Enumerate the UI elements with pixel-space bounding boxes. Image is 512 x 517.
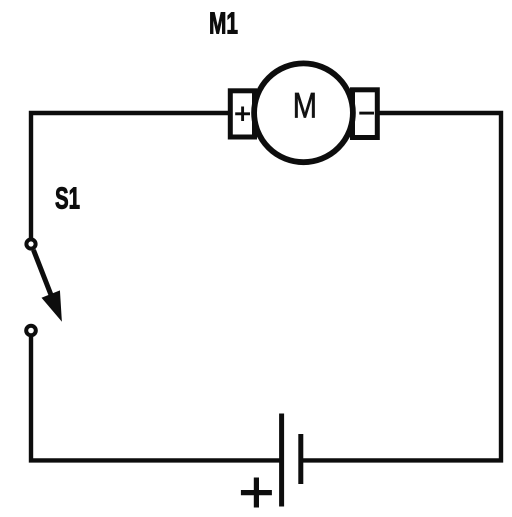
- battery negative plate (short): [298, 434, 303, 484]
- switch S1 bottom terminal: [26, 326, 36, 336]
- wire top-left run: from motor left terminal to top-left corner down to switch: [31, 113, 229, 239]
- svg-text:M1: M1: [209, 7, 238, 41]
- switch S1 blade arrowhead: [43, 291, 61, 319]
- battery plus label: [241, 490, 272, 495]
- wire right run: from motor right terminal across top-right corner down and along bottom to battery minus plate: [303, 113, 501, 460]
- battery positive plate (long): [279, 414, 284, 507]
- plus mark in left terminal: [235, 112, 250, 115]
- minus mark in right terminal: [359, 112, 374, 115]
- switch S1 top terminal: [26, 239, 35, 248]
- motor M1 body circle: [254, 63, 353, 162]
- switch S1 blade (arrow shaft): [34, 250, 54, 300]
- motor M1 right terminal block: [353, 90, 378, 138]
- motor M1 left terminal block: [230, 91, 254, 137]
- svg-text:S1: S1: [55, 181, 80, 215]
- svg-text:M: M: [293, 86, 317, 126]
- wire bottom-left run: from below switch down and along bottom to battery plus plate: [31, 336, 280, 460]
